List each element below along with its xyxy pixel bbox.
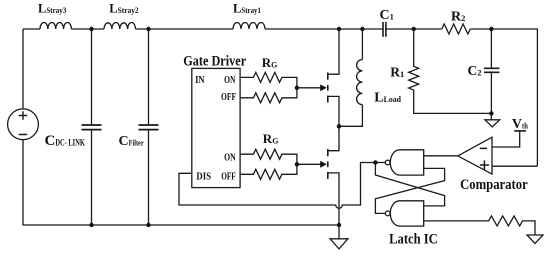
svg-text:Latch IC: Latch IC <box>389 232 438 248</box>
svg-text:CDC- LINK: CDC- LINK <box>45 133 86 149</box>
svg-text:ON: ON <box>224 74 235 86</box>
svg-text:Vth: Vth <box>512 117 528 132</box>
svg-text:LStray2: LStray2 <box>109 2 138 16</box>
svg-text:Gate Driver: Gate Driver <box>183 53 246 69</box>
svg-text:OFF: OFF <box>221 170 236 182</box>
svg-text:R1: R1 <box>390 65 404 80</box>
svg-text:LStray3: LStray3 <box>38 2 66 16</box>
svg-text:OFF: OFF <box>221 91 236 103</box>
svg-text:R2: R2 <box>451 9 465 24</box>
svg-text:CFilter: CFilter <box>119 134 144 149</box>
svg-text:DIS: DIS <box>196 170 211 182</box>
svg-text:RG: RG <box>262 55 278 70</box>
svg-text:Comparator: Comparator <box>460 177 528 193</box>
svg-text:C2: C2 <box>468 63 482 78</box>
svg-text:IN: IN <box>195 74 205 86</box>
svg-text:RG: RG <box>263 131 279 146</box>
svg-text:ON: ON <box>224 151 236 163</box>
svg-text:LStray1: LStray1 <box>233 2 261 16</box>
svg-text:C1: C1 <box>380 8 394 23</box>
svg-text:LLoad: LLoad <box>374 90 401 105</box>
